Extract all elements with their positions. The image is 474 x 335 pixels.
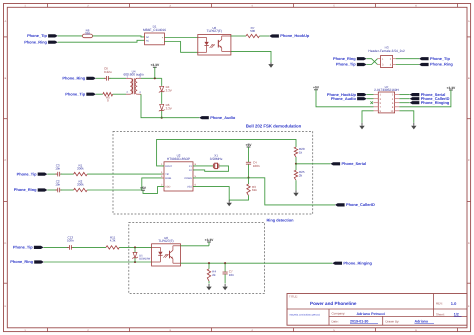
svg-text:1k: 1k	[299, 150, 303, 154]
svg-text:RING: RING	[165, 177, 171, 180]
svg-text:-: -	[162, 41, 163, 44]
svg-text:Company:: Company:	[332, 312, 346, 316]
svg-text:2k: 2k	[299, 174, 303, 178]
svg-text:Phone_Ringing: Phone_Ringing	[343, 260, 372, 265]
svg-text:Phone_Ring: Phone_Ring	[14, 187, 37, 192]
svg-text:TLP627(F): TLP627(F)	[207, 29, 222, 33]
svg-text:MB6F_C114016: MB6F_C114016	[143, 28, 166, 32]
svg-text:AC: AC	[146, 36, 150, 39]
svg-text:Phone_Audio: Phone_Audio	[210, 115, 236, 120]
svg-text:Phone_Ring: Phone_Ring	[24, 39, 47, 44]
svg-text:TLP627(F): TLP627(F)	[158, 239, 173, 243]
svg-text:+3.3V: +3.3V	[447, 86, 457, 90]
svg-text:Phone_Ring: Phone_Ring	[430, 62, 453, 67]
svg-text:0.22u: 0.22u	[104, 70, 112, 74]
svg-text:500: 500	[250, 29, 255, 33]
svg-text:HT9032D-8SOP: HT9032D-8SOP	[167, 157, 190, 161]
svg-text:2019-01-30: 2019-01-30	[350, 320, 368, 324]
svg-text:+5V: +5V	[313, 86, 320, 90]
svg-text:easyeda.com/adriano.petrucci: easyeda.com/adriano.petrucci	[290, 314, 321, 317]
svg-text:3.3V: 3.3V	[166, 88, 172, 92]
svg-text:VDD: VDD	[165, 186, 170, 189]
svg-text:Bell 202 FSK demodulation: Bell 202 FSK demodulation	[246, 123, 302, 128]
svg-text:Phone_CallerID: Phone_CallerID	[346, 202, 375, 207]
svg-text:Header-Female-3.54_2x2: Header-Female-3.54_2x2	[368, 49, 405, 53]
svg-text:Phone_HookUp: Phone_HookUp	[280, 33, 310, 38]
svg-text:REV:: REV:	[436, 302, 443, 306]
svg-text:200k: 200k	[77, 167, 84, 171]
svg-text:D: D	[5, 242, 7, 245]
svg-text:Phone_Tip: Phone_Tip	[27, 33, 47, 38]
svg-text:D: D	[468, 242, 470, 245]
svg-text:TITLE:: TITLE:	[289, 295, 298, 299]
svg-text:61k: 61k	[252, 188, 257, 192]
svg-text:+3.3V: +3.3V	[150, 63, 160, 67]
svg-text:2k: 2k	[212, 273, 216, 277]
svg-text:Phone_Tip: Phone_Tip	[17, 171, 37, 176]
svg-text:Phone_Ringing: Phone_Ringing	[421, 100, 450, 105]
svg-text:Ring detection: Ring detection	[267, 217, 295, 222]
svg-text:200k: 200k	[77, 182, 84, 186]
svg-text:+5V: +5V	[246, 143, 253, 147]
svg-text:BSM19W: BSM19W	[139, 258, 151, 261]
svg-text:Adriano Petrucci: Adriano Petrucci	[357, 312, 386, 316]
svg-text:3.3V: 3.3V	[166, 106, 172, 110]
svg-text:AC: AC	[146, 39, 150, 42]
svg-text:1.0: 1.0	[451, 301, 457, 306]
svg-text:1/2: 1/2	[454, 313, 459, 317]
svg-text:Phone_Ring: Phone_Ring	[10, 259, 33, 264]
svg-text:C: C	[5, 159, 7, 162]
svg-text:DOUT: DOUT	[165, 165, 172, 168]
svg-text:Phone_Tip: Phone_Tip	[430, 56, 450, 61]
svg-text:Power and Phoneline: Power and Phoneline	[310, 301, 357, 306]
svg-text:Adriano: Adriano	[415, 320, 429, 324]
svg-text:Sheet:: Sheet:	[436, 313, 445, 317]
svg-text:330: 330	[85, 32, 90, 36]
svg-text:Phone_Audio: Phone_Audio	[331, 96, 357, 101]
svg-text:Drawn By:: Drawn By:	[386, 320, 400, 324]
svg-text:3.58MHz: 3.58MHz	[210, 157, 223, 161]
svg-text:Phone_Ring: Phone_Ring	[333, 56, 356, 61]
svg-text:PDWN: PDWN	[184, 177, 192, 180]
svg-text:Phone_Tip: Phone_Tip	[336, 62, 356, 67]
svg-text:TIP: TIP	[165, 173, 169, 176]
svg-text:10n: 10n	[55, 167, 60, 171]
svg-text:2-01733052169H: 2-01733052169H	[374, 88, 399, 92]
svg-text:100n: 100n	[67, 239, 74, 243]
svg-text:Phone_Tip: Phone_Tip	[65, 91, 85, 96]
svg-text:100n: 100n	[253, 164, 260, 168]
svg-text:Phone_Ring: Phone_Ring	[62, 75, 85, 80]
svg-text:+5V: +5V	[140, 186, 147, 190]
svg-text:10n: 10n	[55, 182, 60, 186]
svg-text:Phone_Serial: Phone_Serial	[342, 161, 367, 166]
svg-text:4.3k: 4.3k	[110, 239, 116, 243]
svg-text:C: C	[468, 159, 470, 162]
svg-text:10n: 10n	[229, 273, 234, 277]
svg-text:Phone_Tip: Phone_Tip	[13, 245, 33, 250]
svg-text:+3.3V: +3.3V	[205, 238, 215, 242]
svg-text:Date:: Date:	[332, 320, 339, 324]
svg-text:VSS: VSS	[187, 186, 192, 189]
